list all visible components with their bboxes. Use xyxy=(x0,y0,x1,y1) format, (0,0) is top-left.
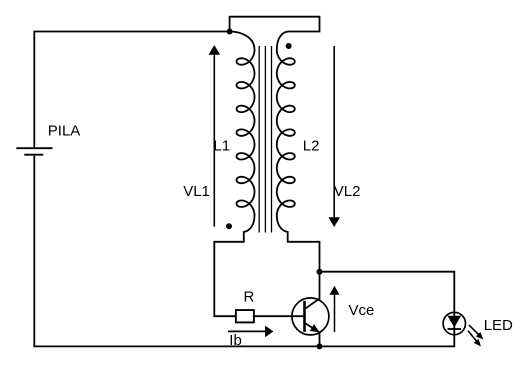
svg-text:L1: L1 xyxy=(213,137,230,154)
svg-text:VL2: VL2 xyxy=(334,183,361,200)
svg-text:Vce: Vce xyxy=(349,302,375,319)
svg-text:VL1: VL1 xyxy=(183,183,210,200)
svg-text:PILA: PILA xyxy=(48,123,81,140)
svg-text:Ib: Ib xyxy=(229,332,242,349)
svg-text:R: R xyxy=(244,289,255,306)
svg-text:LED: LED xyxy=(484,317,513,334)
svg-text:L2: L2 xyxy=(303,137,320,154)
